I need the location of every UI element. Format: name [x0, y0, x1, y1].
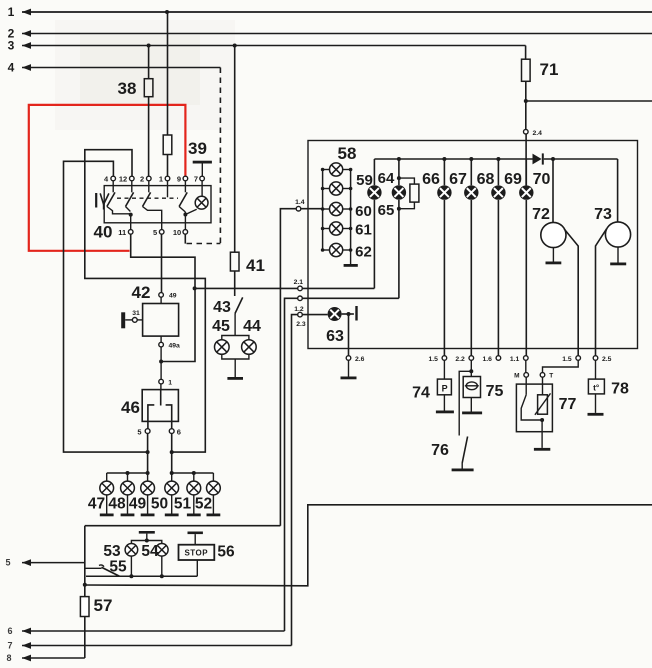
svg-text:1.1: 1.1 [510, 356, 520, 363]
svg-text:75: 75 [486, 383, 504, 400]
svg-text:46: 46 [121, 398, 140, 417]
svg-text:8: 8 [6, 653, 11, 663]
svg-text:STOP: STOP [184, 548, 208, 557]
svg-text:74: 74 [412, 385, 430, 402]
svg-text:53: 53 [103, 543, 121, 560]
svg-text:62: 62 [355, 244, 372, 261]
svg-text:70: 70 [533, 171, 551, 188]
svg-text:P: P [442, 383, 448, 393]
svg-text:3: 3 [8, 39, 15, 53]
svg-text:1.5: 1.5 [428, 356, 438, 363]
svg-text:5: 5 [5, 558, 10, 568]
svg-text:72: 72 [532, 206, 550, 223]
svg-text:73: 73 [594, 206, 612, 223]
svg-text:9: 9 [177, 174, 181, 183]
svg-text:40: 40 [94, 223, 113, 242]
svg-text:2.2: 2.2 [455, 356, 465, 363]
svg-text:58: 58 [338, 144, 357, 163]
svg-text:5: 5 [153, 228, 157, 237]
svg-text:43: 43 [213, 299, 231, 316]
svg-text:78: 78 [611, 381, 629, 398]
svg-text:7: 7 [194, 174, 198, 183]
svg-text:41: 41 [246, 256, 265, 275]
svg-text:31: 31 [132, 310, 140, 317]
svg-text:59: 59 [356, 172, 373, 189]
svg-text:6: 6 [177, 428, 181, 437]
svg-text:50: 50 [151, 496, 168, 513]
svg-text:66: 66 [422, 171, 440, 188]
svg-text:M: M [514, 372, 519, 379]
svg-text:39: 39 [188, 139, 207, 158]
svg-text:1: 1 [159, 174, 163, 183]
svg-text:1.5: 1.5 [562, 356, 572, 363]
svg-text:71: 71 [540, 60, 559, 79]
svg-text:49a: 49a [169, 342, 181, 349]
svg-text:10: 10 [173, 228, 181, 237]
svg-text:2.6: 2.6 [355, 356, 365, 363]
svg-text:2: 2 [140, 174, 144, 183]
svg-text:65: 65 [378, 202, 395, 219]
svg-text:49: 49 [169, 293, 177, 300]
svg-text:T: T [549, 372, 553, 379]
svg-text:77: 77 [559, 396, 577, 413]
svg-text:64: 64 [378, 170, 395, 187]
svg-text:48: 48 [108, 496, 126, 513]
svg-text:1.6: 1.6 [482, 356, 492, 363]
svg-text:38: 38 [118, 79, 137, 98]
svg-text:56: 56 [217, 544, 235, 561]
svg-text:44: 44 [243, 318, 261, 335]
svg-text:54: 54 [141, 543, 159, 560]
svg-text:4: 4 [8, 61, 15, 75]
svg-text:2.3: 2.3 [296, 321, 306, 328]
svg-text:1.4: 1.4 [295, 199, 305, 206]
svg-text:1: 1 [8, 5, 15, 19]
svg-text:57: 57 [94, 596, 113, 615]
svg-text:68: 68 [477, 171, 495, 188]
svg-text:t°: t° [593, 383, 600, 393]
svg-text:69: 69 [504, 171, 522, 188]
svg-text:11: 11 [118, 228, 126, 237]
svg-text:2.4: 2.4 [533, 130, 543, 137]
svg-text:2.5: 2.5 [602, 356, 612, 363]
svg-text:1: 1 [168, 379, 172, 386]
svg-text:5: 5 [137, 428, 141, 437]
svg-text:12: 12 [119, 174, 127, 183]
svg-text:7: 7 [7, 641, 12, 651]
svg-text:1.2: 1.2 [294, 306, 304, 313]
svg-text:55: 55 [109, 559, 127, 576]
svg-text:61: 61 [355, 222, 372, 239]
svg-text:60: 60 [355, 203, 372, 220]
svg-text:52: 52 [195, 496, 212, 513]
svg-text:67: 67 [449, 171, 467, 188]
svg-text:76: 76 [431, 442, 449, 459]
svg-text:45: 45 [212, 318, 230, 335]
svg-text:42: 42 [132, 283, 151, 302]
svg-text:6: 6 [7, 626, 12, 636]
svg-text:51: 51 [174, 496, 192, 513]
svg-text:2.1: 2.1 [294, 279, 304, 286]
svg-text:49: 49 [129, 496, 147, 513]
svg-text:47: 47 [88, 496, 105, 513]
svg-text:63: 63 [326, 328, 344, 345]
